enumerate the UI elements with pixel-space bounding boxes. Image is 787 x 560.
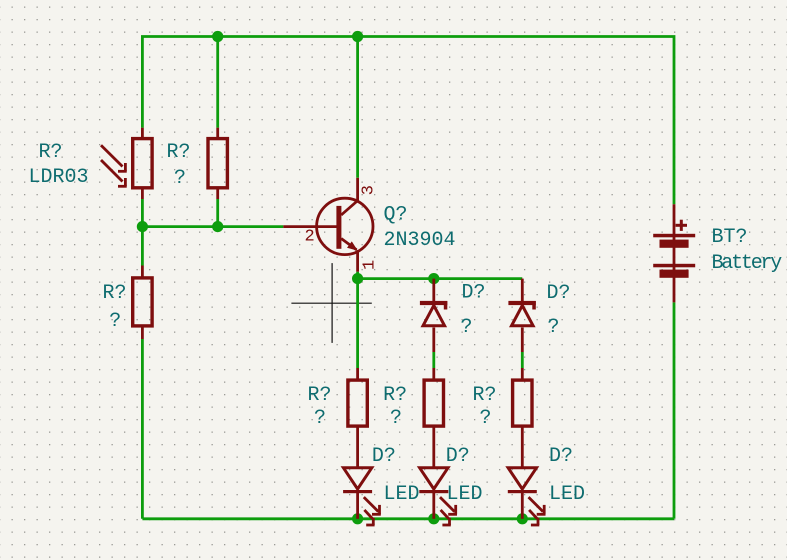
svg-text:R?: R? bbox=[383, 384, 407, 407]
svg-text:3: 3 bbox=[360, 185, 379, 195]
LDR arrows bbox=[101, 145, 127, 186]
crosshair cursor bbox=[291, 263, 371, 343]
node bottom-1 bbox=[352, 513, 363, 524]
svg-text:R?: R? bbox=[39, 141, 63, 164]
svg-text:?: ? bbox=[461, 316, 473, 339]
svg-text:LED: LED bbox=[447, 483, 483, 506]
svg-text:D?: D? bbox=[446, 445, 470, 468]
wire col1 down bbox=[356, 279, 359, 368]
pins (dark red stubs) bbox=[142, 128, 674, 519]
node emitter bbox=[352, 273, 363, 284]
svg-text:?: ? bbox=[174, 167, 186, 190]
node top-R2 bbox=[212, 31, 223, 42]
svg-text:Battery: Battery bbox=[712, 252, 783, 275]
wire emitter stub bbox=[356, 272, 359, 279]
svg-text:BT?: BT? bbox=[712, 226, 748, 249]
resistor R3 body bbox=[133, 278, 152, 326]
svg-text:?: ? bbox=[390, 407, 402, 430]
svg-text:?: ? bbox=[480, 407, 492, 430]
resistor R2 body bbox=[208, 139, 227, 188]
resistor R? LDR03 body bbox=[133, 139, 152, 188]
node bottom-2 bbox=[428, 513, 439, 524]
svg-text:R?: R? bbox=[308, 384, 332, 407]
svg-text:R?: R? bbox=[167, 141, 191, 164]
LED D5 bbox=[508, 468, 546, 525]
node base-left bbox=[137, 221, 148, 232]
wire R2 top bbox=[216, 37, 219, 128]
node bottom-3 bbox=[517, 513, 528, 524]
wire col3 mid bbox=[521, 352, 524, 368]
svg-text:LED: LED bbox=[384, 483, 420, 506]
resistor col2 body bbox=[424, 380, 443, 426]
battery BT1 bbox=[653, 220, 695, 278]
svg-text:D?: D? bbox=[462, 282, 486, 305]
wire R3 bottom long bbox=[141, 339, 144, 519]
diode D1 (zener) bbox=[420, 301, 447, 326]
pin numbers bbox=[305, 185, 380, 270]
node top-collector bbox=[352, 31, 363, 42]
wire right lower bbox=[673, 302, 676, 518]
svg-text:?: ? bbox=[109, 310, 121, 333]
LED D3 bbox=[343, 468, 381, 525]
resistor col1 body bbox=[348, 380, 367, 426]
wire bottom bbox=[142, 517, 674, 520]
svg-text:R?: R? bbox=[103, 282, 127, 305]
svg-text:?: ? bbox=[548, 316, 560, 339]
svg-text:R?: R? bbox=[473, 384, 497, 407]
transistor Q1 2N3904 bbox=[317, 198, 373, 254]
wire LDR bottom to base rail bbox=[141, 199, 144, 227]
node base-mid bbox=[212, 221, 223, 232]
diode D2 (zener) bbox=[508, 301, 535, 326]
svg-text:2N3904: 2N3904 bbox=[384, 229, 456, 252]
wire base rail bbox=[142, 225, 283, 228]
svg-text:D?: D? bbox=[549, 445, 573, 468]
svg-text:2: 2 bbox=[305, 228, 315, 247]
wire col2 mid bbox=[432, 352, 435, 368]
wire: top+left+right bus bbox=[142, 37, 674, 519]
wire collector bbox=[356, 37, 359, 178]
wire emitter rail bbox=[358, 277, 523, 280]
svg-text:D?: D? bbox=[547, 282, 571, 305]
svg-text:LED: LED bbox=[549, 483, 585, 506]
svg-text:1: 1 bbox=[360, 260, 379, 270]
wire R3 top bbox=[141, 227, 144, 266]
svg-text:LDR03: LDR03 bbox=[29, 166, 89, 189]
resistor col3 body bbox=[513, 380, 532, 426]
node rail-D1 bbox=[428, 273, 439, 284]
wire R2 bottom bbox=[216, 199, 219, 227]
svg-text:Q?: Q? bbox=[384, 204, 408, 227]
svg-text:?: ? bbox=[314, 407, 326, 430]
LED D4 bbox=[419, 468, 457, 525]
svg-text:D?: D? bbox=[372, 445, 396, 468]
